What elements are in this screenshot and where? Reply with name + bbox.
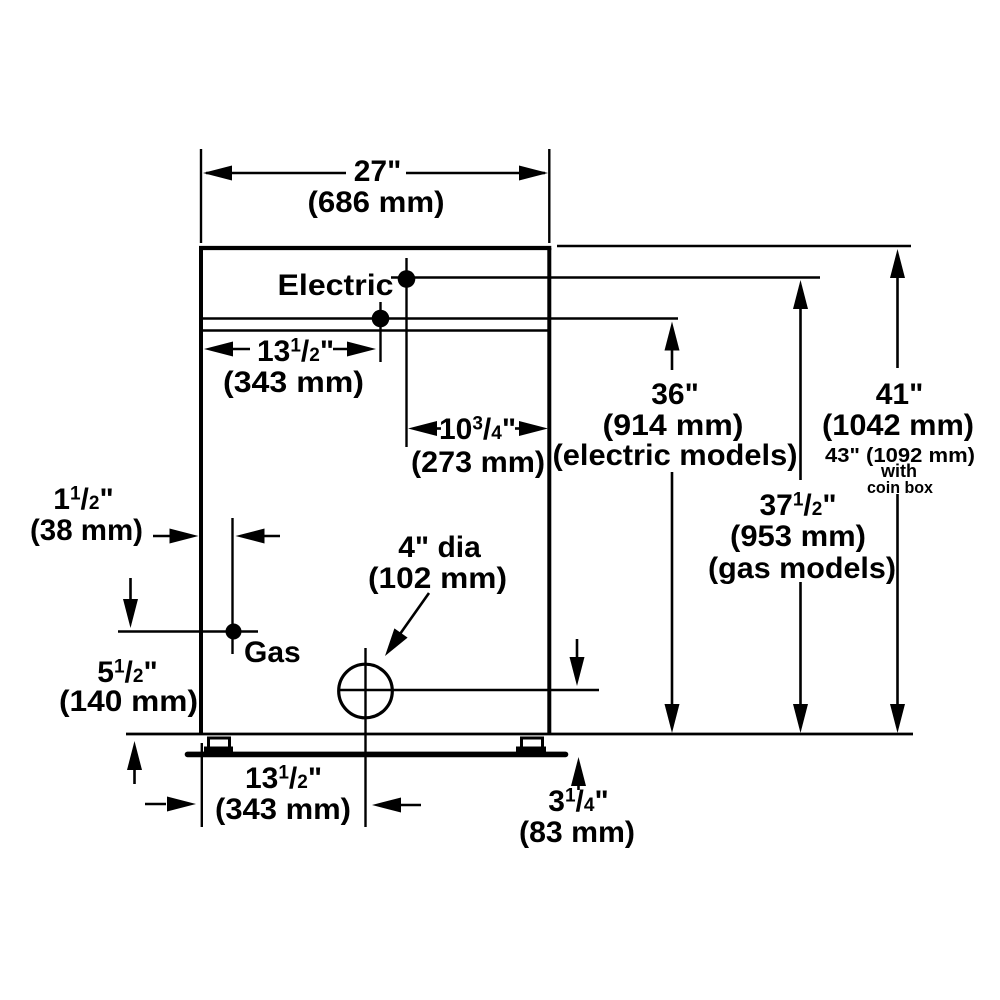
36in dim line — [665, 322, 680, 351]
5.5in up arrow — [133, 770, 136, 784]
exhaust circle 4in dia — [339, 664, 393, 718]
svg-text:4" dia: 4" dia — [398, 531, 481, 564]
svg-text:36": 36" — [651, 378, 699, 411]
dryer cabinet outline — [199, 248, 203, 734]
top edge extension right — [557, 245, 911, 247]
electric port dot — [398, 270, 416, 288]
13.5in upper dim arrows — [232, 348, 250, 351]
svg-text:(gas models): (gas models) — [708, 552, 896, 585]
41in dim line — [890, 249, 905, 278]
gas stem vertical — [231, 518, 233, 654]
svg-text:(343 mm): (343 mm) — [223, 366, 364, 399]
electric port stem — [405, 258, 407, 447]
13.5in lower arrows — [145, 803, 166, 806]
exhaust horizontal line — [338, 689, 599, 691]
svg-text:11/2": 11/2" — [53, 483, 113, 516]
svg-text:Gas: Gas — [244, 636, 301, 669]
electric port leader line — [391, 276, 820, 278]
left edge extension down — [201, 743, 203, 827]
svg-text:(102 mm): (102 mm) — [368, 562, 507, 595]
gas leader line — [118, 630, 258, 632]
svg-text:(1042 mm): (1042 mm) — [822, 409, 974, 442]
console line lower — [202, 329, 548, 331]
svg-text:(343 mm): (343 mm) — [215, 793, 351, 826]
svg-text:41": 41" — [876, 378, 924, 411]
3.25in down arrow — [576, 639, 579, 658]
left leg — [209, 738, 230, 748]
right leg — [522, 738, 543, 748]
5.5in down arrow — [129, 578, 132, 600]
37.5in dim line — [793, 280, 808, 309]
svg-text:(273 mm): (273 mm) — [411, 446, 545, 479]
4in dia leader arrow — [400, 593, 429, 634]
bottom reference line — [126, 733, 913, 736]
floor line — [188, 752, 566, 758]
lower port dot — [372, 310, 390, 328]
3.25in up arrow — [577, 782, 580, 790]
10.75in dim arrows — [408, 421, 437, 436]
svg-text:coin box: coin box — [867, 478, 934, 497]
svg-text:(953 mm): (953 mm) — [730, 520, 866, 553]
svg-text:(686 mm): (686 mm) — [308, 186, 445, 219]
svg-text:27": 27" — [354, 155, 402, 188]
svg-text:(electric models): (electric models) — [553, 439, 798, 472]
svg-text:31/4": 31/4" — [548, 785, 608, 818]
gas dot — [226, 624, 242, 640]
svg-text:(140 mm): (140 mm) — [59, 685, 198, 718]
lower port stem — [379, 302, 381, 362]
extension line left top — [200, 149, 202, 243]
svg-text:Electric: Electric — [278, 269, 394, 302]
svg-text:(83 mm): (83 mm) — [519, 816, 635, 849]
exhaust vertical centerline — [364, 648, 366, 827]
27in dimension line — [206, 172, 346, 175]
extension line right top — [548, 149, 550, 243]
svg-text:(914 mm): (914 mm) — [603, 409, 744, 442]
1.5in dim arrows — [153, 535, 171, 538]
svg-text:(38 mm): (38 mm) — [30, 514, 143, 547]
console line upper (through lower port) — [202, 317, 678, 319]
